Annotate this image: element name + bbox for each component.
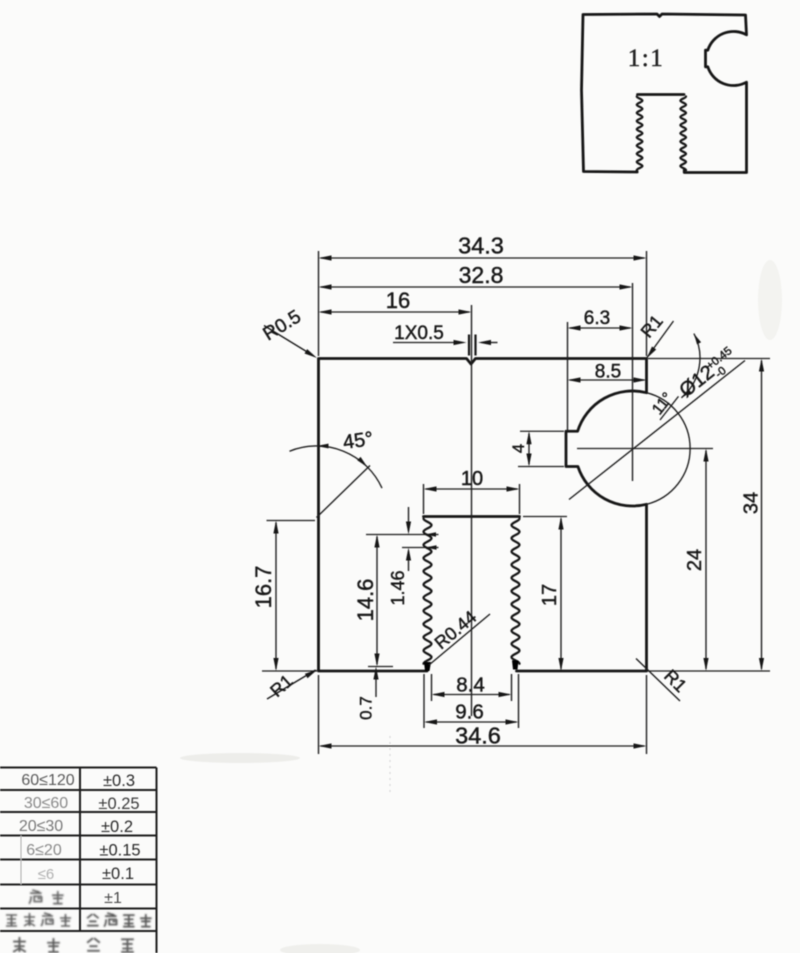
svg-text:34: 34 xyxy=(741,492,763,514)
svg-text:4: 4 xyxy=(509,444,528,453)
svg-text:6≤20: 6≤20 xyxy=(26,842,62,859)
svg-text:±0.25: ±0.25 xyxy=(98,795,139,813)
svg-text:±0.2: ±0.2 xyxy=(101,818,133,836)
svg-text:24: 24 xyxy=(684,549,706,571)
svg-text:16: 16 xyxy=(386,288,410,313)
svg-text:16.7: 16.7 xyxy=(251,566,276,609)
svg-text:1.46: 1.46 xyxy=(388,570,408,605)
svg-text:1:1: 1:1 xyxy=(628,45,664,72)
svg-text:±0.1: ±0.1 xyxy=(102,865,134,883)
svg-text:1X0.5: 1X0.5 xyxy=(394,323,444,344)
svg-text:30≤60: 30≤60 xyxy=(24,795,68,812)
svg-text:17: 17 xyxy=(539,584,561,606)
svg-text:32.8: 32.8 xyxy=(459,262,504,288)
svg-text:9.6: 9.6 xyxy=(455,701,484,724)
svg-text:±0.3: ±0.3 xyxy=(103,772,135,790)
svg-text:10: 10 xyxy=(461,468,483,490)
svg-text:60≤120: 60≤120 xyxy=(21,772,74,789)
svg-text:34.3: 34.3 xyxy=(458,233,504,259)
svg-text:14.6: 14.6 xyxy=(353,579,378,622)
svg-text:±1: ±1 xyxy=(104,890,122,907)
svg-text:20≤30: 20≤30 xyxy=(19,818,63,835)
svg-text:45°: 45° xyxy=(342,428,375,454)
svg-text:≤6: ≤6 xyxy=(38,866,55,883)
svg-text:34.6: 34.6 xyxy=(455,723,501,749)
svg-text:0.7: 0.7 xyxy=(357,696,376,720)
svg-text:8.4: 8.4 xyxy=(456,674,485,697)
svg-text:8.5: 8.5 xyxy=(595,362,621,383)
svg-text:6.3: 6.3 xyxy=(584,308,610,329)
svg-text:±0.15: ±0.15 xyxy=(99,842,140,860)
